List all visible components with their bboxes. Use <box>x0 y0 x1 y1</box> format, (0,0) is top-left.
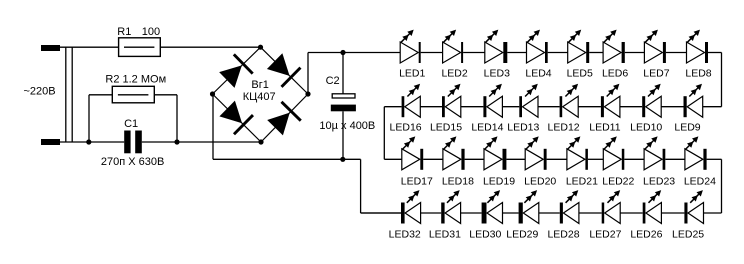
wire bridge right corner up <box>307 53 309 95</box>
LED LED22 <box>602 136 634 187</box>
wire C1 to bridge bottom node <box>142 141 261 143</box>
svg-text:LED20: LED20 <box>524 176 556 188</box>
node bridge top corner <box>258 45 263 50</box>
LED LED13 <box>507 84 539 134</box>
wire <box>423 158 443 160</box>
svg-text:LED28: LED28 <box>547 228 579 240</box>
wire <box>588 158 603 160</box>
svg-text:LED29: LED29 <box>506 228 538 240</box>
LED LED24 <box>684 136 716 187</box>
node R2-left junction <box>86 139 91 144</box>
wire <box>620 106 642 108</box>
wire bridge edge T-R <box>261 47 309 94</box>
wire <box>539 212 560 214</box>
svg-text:R1: R1 <box>117 26 131 38</box>
svg-text:LED30: LED30 <box>469 228 501 240</box>
wire <box>548 52 568 54</box>
node R2-right junction <box>174 139 179 144</box>
wire <box>384 158 402 160</box>
wire <box>420 106 442 108</box>
resistor R2 body <box>112 86 154 103</box>
capacitor C1 plate left <box>124 131 130 154</box>
wire bridge edge L-T <box>213 47 261 94</box>
svg-text:LED1: LED1 <box>399 68 425 80</box>
svg-text:LED10: LED10 <box>630 122 662 134</box>
diode VD2 (bridge top-right arm) <box>265 52 301 88</box>
LED LED28 <box>547 190 579 240</box>
svg-text:LED23: LED23 <box>643 176 675 188</box>
LED LED6 <box>602 30 628 80</box>
diode VD1 (bridge top-left arm) <box>217 53 253 89</box>
LED LED14 <box>471 84 503 134</box>
svg-text:LED13: LED13 <box>507 122 539 134</box>
svg-text:LED3: LED3 <box>484 68 510 80</box>
LED LED20 <box>524 136 556 187</box>
wire <box>361 212 401 214</box>
LED LED12 <box>548 84 580 134</box>
LED LED29 <box>506 190 539 240</box>
svg-text:LED18: LED18 <box>442 176 474 188</box>
wire <box>503 212 519 214</box>
wire mains cord line 2 <box>71 47 73 142</box>
LED LED1 <box>399 30 425 80</box>
wire C2 bottom lead <box>342 111 344 159</box>
wire <box>463 52 485 54</box>
wire <box>620 212 643 214</box>
LED LED18 <box>442 136 474 187</box>
svg-text:LED2: LED2 <box>441 68 467 80</box>
svg-text:LED19: LED19 <box>483 176 515 188</box>
wire <box>665 158 685 160</box>
LED LED30 <box>469 190 502 240</box>
capacitor C2 bottom plate <box>331 105 356 112</box>
wire <box>461 212 482 214</box>
wire <box>704 212 722 214</box>
wire R2 left leg vertical <box>88 95 90 142</box>
wire <box>589 52 603 54</box>
wire bridge edge B-R <box>261 94 308 142</box>
wire R1 to bridge top node <box>160 46 260 48</box>
wire bridge left corner down <box>212 94 214 159</box>
capacitor C1 plate right <box>135 131 142 154</box>
svg-text:~220В: ~220В <box>24 85 56 97</box>
wire <box>506 158 525 160</box>
svg-text:LED24: LED24 <box>684 176 716 188</box>
LED LED19 <box>483 136 515 187</box>
wire <box>547 158 567 160</box>
wire <box>661 212 684 214</box>
wire <box>624 158 644 160</box>
wire R2 right leg horizontal <box>154 94 177 96</box>
wire <box>666 52 687 54</box>
node C2 top junction <box>340 50 345 55</box>
wire bridge edge L-B <box>213 94 262 142</box>
wire <box>661 106 683 108</box>
wire row3 to row4 right side <box>721 159 723 213</box>
wire <box>461 106 484 108</box>
LED LED21 <box>566 136 598 187</box>
svg-text:LED7: LED7 <box>643 68 669 80</box>
LED LED11 <box>589 84 620 134</box>
LED LED15 <box>430 84 462 134</box>
svg-text:LED9: LED9 <box>674 122 700 134</box>
svg-text:100: 100 <box>142 26 160 38</box>
wire <box>465 158 484 160</box>
svg-text:R2 1.2 МОм: R2 1.2 МОм <box>105 73 166 85</box>
wire R2 right leg vertical <box>176 95 178 142</box>
svg-text:LED8: LED8 <box>685 68 711 80</box>
terminal X1 (mains pin, top) <box>41 45 60 51</box>
svg-text:LED25: LED25 <box>672 228 704 240</box>
wire <box>708 52 722 54</box>
svg-text:LED15: LED15 <box>430 122 462 134</box>
node bridge bottom corner <box>258 139 263 144</box>
LED LED23 <box>643 136 675 187</box>
diode VD4 (bridge bottom-right arm) <box>265 101 301 137</box>
terminal X2 (mains pin, bottom) <box>41 139 60 145</box>
LED LED17 <box>401 136 433 187</box>
wire bottom rail from X2 to C1 <box>60 141 124 143</box>
svg-text:LED4: LED4 <box>525 68 551 80</box>
node bridge right corner <box>305 91 310 96</box>
node bridge left corner <box>210 91 215 96</box>
wire negative rail to LED row 4 <box>361 212 401 214</box>
wire <box>384 106 401 108</box>
wire <box>707 158 722 160</box>
wire negative rail step down <box>360 159 362 213</box>
wire <box>502 106 519 108</box>
svg-text:LED11: LED11 <box>589 122 620 134</box>
wire <box>625 52 645 54</box>
LED LED3 <box>484 30 510 80</box>
svg-text:LED14: LED14 <box>471 122 503 134</box>
svg-text:LED32: LED32 <box>389 228 421 240</box>
LED LED5 <box>567 30 593 80</box>
LED LED8 <box>685 30 711 80</box>
svg-text:C1: C1 <box>124 118 138 130</box>
LED LED32 <box>389 190 421 240</box>
LED LED27 <box>589 190 621 240</box>
LED LED31 <box>429 190 461 240</box>
node C2 bottom junction <box>340 157 345 162</box>
resistor R1 inner line <box>124 46 154 48</box>
LED LED26 <box>630 190 662 240</box>
capacitor C2 top plate <box>332 94 355 98</box>
svg-text:C2: C2 <box>326 75 340 87</box>
wire <box>538 106 560 108</box>
wire <box>578 106 601 108</box>
wire negative rail horizontal <box>213 158 361 160</box>
wire <box>421 212 442 214</box>
svg-text:10µ x 400В: 10µ x 400В <box>319 120 375 132</box>
svg-text:LED6: LED6 <box>602 68 628 80</box>
svg-text:LED21: LED21 <box>566 176 598 188</box>
LED LED2 <box>441 30 467 80</box>
wire <box>507 52 526 54</box>
svg-text:LED31: LED31 <box>429 228 461 240</box>
wire positive rail to LED row 1 <box>308 52 400 54</box>
wire <box>703 106 722 108</box>
wire row1 to row2 right side <box>721 53 723 107</box>
svg-text:LED12: LED12 <box>548 122 580 134</box>
svg-text:LED26: LED26 <box>630 228 662 240</box>
LED LED16 <box>390 84 422 134</box>
svg-text:LED5: LED5 <box>567 68 593 80</box>
resistor R2 inner line <box>118 94 148 96</box>
svg-text:LED27: LED27 <box>589 228 621 240</box>
wire mains cord line 1 <box>65 47 67 142</box>
LED LED4 <box>525 30 551 80</box>
wire top rail from X1 to R1 <box>60 46 119 48</box>
svg-text:LED17: LED17 <box>401 176 433 188</box>
svg-text:LED22: LED22 <box>602 176 634 188</box>
LED LED7 <box>643 30 669 80</box>
svg-text:КЦ407: КЦ407 <box>243 91 276 103</box>
svg-text:LED16: LED16 <box>390 122 422 134</box>
wire <box>421 52 443 54</box>
resistor R1 body <box>119 38 161 57</box>
svg-text:270п X 630В: 270п X 630В <box>101 156 164 168</box>
wire <box>579 212 602 214</box>
LED LED25 <box>672 190 704 240</box>
wire C2 top lead <box>342 53 344 94</box>
LED LED9 <box>674 84 702 134</box>
wire R2 left leg horizontal <box>89 94 112 96</box>
LED LED10 <box>630 84 662 134</box>
diode VD3 (bridge bottom-left arm) <box>218 99 254 135</box>
svg-text:Вг1: Вг1 <box>251 79 268 91</box>
wire row2 to row3 left side <box>383 107 385 160</box>
